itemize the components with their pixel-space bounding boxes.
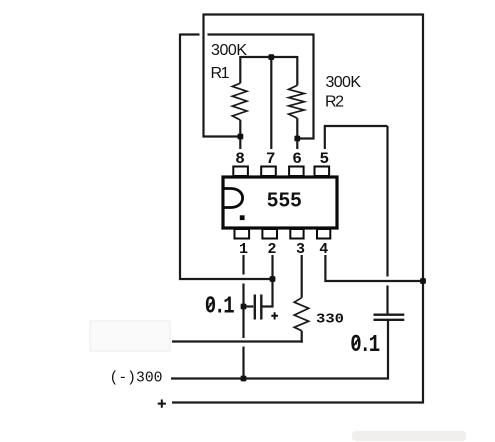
capacitor C1 right plate bbox=[260, 295, 262, 320]
wire: pin 1 vertical to ground rail (gaps at trigger + output crossings) bbox=[242, 255, 244, 380]
resistor R3 330 (output) bbox=[294, 298, 309, 343]
wire: R1-R2 junction horizontal at y=57 bbox=[241, 56, 298, 58]
svg-text:3: 3 bbox=[296, 241, 305, 258]
junction dot: reset wire / right V+ bus bbox=[420, 278, 426, 284]
IC pin 6 lead box bbox=[289, 167, 304, 177]
slash of C1 zero bbox=[207, 301, 214, 311]
wire: pin 4 reset down and right to V+ bus bbox=[325, 255, 424, 281]
IC pin 5 lead box bbox=[315, 167, 330, 177]
svg-text:555: 555 bbox=[267, 190, 302, 212]
wire: outer-left vertical (threshold to trigger) bbox=[179, 34, 181, 281]
junction dot: R1/R2 tops to pin 7 bbox=[268, 54, 274, 60]
IC pin 3 lead box bbox=[290, 229, 303, 239]
IC pin 1 lead box bbox=[235, 229, 250, 239]
label: + supply mark bbox=[158, 400, 166, 408]
svg-text:R1: R1 bbox=[211, 65, 230, 82]
IC pin1 marker dot bbox=[240, 215, 245, 220]
svg-text:R2: R2 bbox=[325, 94, 344, 111]
capacitor C1 0.1 (left lead) bbox=[244, 305, 254, 307]
wire: pin 5 control line (up, right, down to cap; gap at reset wire crossing) bbox=[325, 126, 388, 314]
junction dot: pin 2 / trigger wire bbox=[270, 276, 276, 282]
junction dot: pin 1 / C1 left lead bbox=[241, 304, 247, 310]
wire: top V+ bus horizontal bbox=[204, 13, 424, 15]
capacitor C2 0.1 (control, top plate) bbox=[374, 314, 405, 316]
wire: C2 bottom lead to ground rail bbox=[387, 321, 389, 380]
svg-text:5: 5 bbox=[319, 150, 329, 168]
wire: trigger horizontal to pin 2 at y=279 bbox=[179, 278, 273, 280]
wire: output horizontal from R3 bottom going left bbox=[172, 340, 303, 342]
resistor R1 (300K) bbox=[232, 56, 247, 149]
IC notch (D mark) bbox=[225, 189, 243, 208]
capacitor C2 bottom plate bbox=[374, 319, 405, 321]
IC pin 4 lead box bbox=[317, 229, 330, 239]
watermark smudge (bottom-right pink band) bbox=[352, 431, 466, 441]
capacitor C1 left plate bbox=[254, 295, 256, 320]
slash of C2 zero bbox=[352, 338, 359, 348]
wire: pin8 horizontal feed at y=136.5 bbox=[203, 135, 241, 137]
IC pin 2 lead box bbox=[262, 229, 277, 239]
wire: trigger/threshold top horizontal at y=34.5 (gap at V+ crossing) bbox=[180, 33, 314, 35]
wire: pin 6 stub to inner-right vertical bbox=[297, 137, 314, 139]
polarity plus mark of C1 bbox=[271, 312, 278, 319]
svg-text:6: 6 bbox=[292, 150, 302, 168]
wire: + supply rail bbox=[172, 401, 424, 403]
svg-text:7: 7 bbox=[266, 150, 276, 168]
svg-text:330: 330 bbox=[316, 313, 344, 328]
wire: inner-right vertical (threshold side) bbox=[312, 34, 314, 140]
IC U1 555 body bbox=[223, 177, 337, 228]
junction dot: pin 8 / R1 bottom bbox=[238, 134, 244, 140]
wire: pin 2 vertical down to cap C1 right lead bbox=[262, 255, 273, 307]
svg-text:300K: 300K bbox=[326, 74, 362, 91]
whiteout patch (erased area, bottom-left) bbox=[90, 321, 170, 351]
junction dot: pin 6 / R2 bottom bbox=[294, 136, 300, 142]
IC pin 7 lead box bbox=[261, 167, 276, 177]
resistor R2 (300K) bbox=[289, 56, 305, 149]
svg-text:300K: 300K bbox=[211, 42, 247, 59]
wire: V+ bus left vertical (top bus down to pin 8 wire) bbox=[202, 14, 204, 138]
wire: (-)300 ground rail bbox=[171, 377, 389, 379]
svg-text:8: 8 bbox=[235, 150, 245, 168]
wire: right V+ bus vertical bbox=[422, 14, 424, 404]
wire: pin 3 vertical to resistor R3 bbox=[301, 255, 303, 298]
junction dot: pin 1 / ground rail bbox=[241, 376, 247, 382]
IC pin 8 lead box bbox=[233, 167, 248, 177]
wire: pin 7 vertical from junction bbox=[270, 57, 272, 149]
svg-text:(-)300: (-)300 bbox=[110, 370, 163, 387]
svg-text:4: 4 bbox=[319, 241, 328, 258]
